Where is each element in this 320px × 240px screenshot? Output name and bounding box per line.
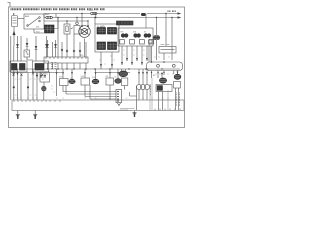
wires right region xyxy=(150,78,168,110)
wire sw to fuse xyxy=(44,17,46,19)
connector JB1-b xyxy=(108,28,117,35)
relay box RB1 xyxy=(118,14,153,47)
bus dots xyxy=(47,68,163,69)
check valve blob xyxy=(42,82,47,100)
sensor group 2 blob xyxy=(92,69,99,84)
connector block CB1 xyxy=(45,18,59,34)
relay coil pair P1 xyxy=(121,32,129,38)
wire drop x58 xyxy=(57,18,59,58)
diode D3 xyxy=(35,46,38,50)
arrow up A1 xyxy=(13,31,16,35)
ignition blob K1 xyxy=(153,35,160,40)
symbol S4 xyxy=(79,50,81,52)
solenoid SL2 xyxy=(174,70,181,110)
sensor group 1 box xyxy=(57,69,69,96)
wire x129 down xyxy=(130,86,137,110)
alternator drop xyxy=(84,39,86,58)
DLC1 connector xyxy=(147,61,183,70)
arrow bus lower end xyxy=(178,16,182,18)
connector JB1-c xyxy=(97,42,106,50)
fuse F1 AM2 xyxy=(45,13,52,19)
symbol S1 xyxy=(61,49,63,51)
main bus xyxy=(11,68,180,70)
label box header xyxy=(117,21,134,25)
drop arrowheads xyxy=(121,58,148,65)
ECM box xyxy=(12,100,184,111)
wire bus upper riser xyxy=(44,14,56,18)
sensor labels xyxy=(59,76,117,80)
connector IG1-b xyxy=(20,64,26,71)
solenoid SL1 xyxy=(156,72,172,110)
relay R2 xyxy=(130,40,135,45)
wire x166 riser xyxy=(165,14,167,47)
spark marks xyxy=(13,74,44,77)
wire resistor down xyxy=(157,40,165,60)
fuse F2 EFI xyxy=(91,12,97,15)
sensor group 1 blob xyxy=(69,69,75,84)
wire labels column xyxy=(176,93,179,107)
connector JB1-d xyxy=(108,42,117,50)
ignition switch SW1 xyxy=(24,14,44,29)
DLC down dots xyxy=(151,72,165,73)
arrow bus upper end xyxy=(178,12,182,14)
junction box JB1 xyxy=(95,24,119,52)
relay coil pair P3 xyxy=(144,32,151,38)
harness arrowheads mid xyxy=(56,72,179,76)
page corner tab xyxy=(8,3,11,7)
wire top bus upper xyxy=(44,14,181,18)
diode D1 xyxy=(16,44,19,48)
wire battery down xyxy=(13,27,15,37)
symbol S2 xyxy=(66,50,68,52)
strip outputs xyxy=(48,63,87,69)
igniter box IG1 xyxy=(10,61,27,72)
tiny specks lower-left xyxy=(15,79,55,95)
wire sw out2 xyxy=(44,20,88,22)
diode D5 xyxy=(46,44,49,48)
label A/T xyxy=(168,10,177,12)
ground G-left2 xyxy=(33,111,37,120)
harness lines to connector xyxy=(63,85,116,99)
ground G-left1 xyxy=(16,111,20,120)
middle verticals xyxy=(48,34,87,57)
svg-text:J/C: J/C xyxy=(80,55,84,57)
svg-text:AM1: AM1 xyxy=(25,15,30,18)
pin labels relay drops xyxy=(123,50,145,55)
pin ticks column xyxy=(51,63,57,69)
wire x46.5 xyxy=(46,36,48,57)
wire drop x77 xyxy=(76,18,78,23)
JB drop arrows xyxy=(100,64,113,67)
noise filter NF1 xyxy=(24,38,33,60)
diode D4 xyxy=(45,44,48,48)
noise filter box K1b xyxy=(149,40,153,43)
wire drop x95 xyxy=(94,18,96,25)
node dots lower-left xyxy=(13,86,15,88)
distributor box xyxy=(122,78,128,90)
wires K1b to DLC xyxy=(149,43,151,62)
bus second xyxy=(11,72,130,74)
fusible link FL1 xyxy=(141,13,146,16)
title text xyxy=(11,8,106,10)
distributor blob xyxy=(119,69,128,77)
wire x156 riser xyxy=(156,18,158,36)
connector JB1-a xyxy=(97,28,106,35)
wire switch bottom route xyxy=(34,29,44,33)
fuse F2 link + label xyxy=(95,14,97,18)
relay R3 xyxy=(140,40,145,45)
relay box drops xyxy=(122,46,151,65)
svg-text:INJ: INJ xyxy=(106,76,109,78)
relay coil pair P2 xyxy=(133,32,141,38)
sensor group 2 box xyxy=(81,69,90,97)
diode D2 xyxy=(26,43,29,47)
tiny specks right arrows xyxy=(99,56,174,74)
strip connector SC1 xyxy=(44,57,88,63)
wires DLC down xyxy=(152,71,174,79)
sensor group 3 blob xyxy=(115,69,121,83)
check connector CC1 xyxy=(40,72,50,82)
lower-left verticals xyxy=(14,69,45,100)
pin labels above ECM xyxy=(13,97,179,99)
relay R4 xyxy=(149,40,154,45)
wire drop x88 xyxy=(87,21,89,27)
fuse box F3 xyxy=(64,24,73,34)
wire battery to switch xyxy=(18,18,24,20)
ECM pin ticks right xyxy=(155,109,180,111)
coil box IG2 xyxy=(33,61,49,72)
wire x172 riser xyxy=(171,18,173,61)
symbol S3 xyxy=(73,50,75,52)
wire x36 xyxy=(35,36,37,61)
connector IG1-a xyxy=(12,64,18,71)
sensor group 3 box xyxy=(106,69,114,100)
junction dot xyxy=(57,17,58,18)
connector IG2-a xyxy=(35,64,44,71)
alternator G1 xyxy=(79,26,91,38)
lower-left arrowheads xyxy=(13,73,46,79)
JB drops xyxy=(101,52,112,69)
wire battery lower xyxy=(13,34,15,46)
ISC valve M1 xyxy=(136,69,149,100)
wire top bus lower xyxy=(56,17,181,19)
wire drop x82 xyxy=(81,14,83,28)
connector X1 xyxy=(116,90,122,106)
diode D6 xyxy=(54,44,57,48)
resistor RZ1 xyxy=(159,45,176,54)
ground G-mid xyxy=(120,109,137,118)
relay R1 xyxy=(120,40,125,45)
fuse F4 xyxy=(74,22,80,34)
battery B1 xyxy=(12,13,18,27)
wire drop x67 xyxy=(66,21,68,24)
left verticals group xyxy=(11,36,21,100)
